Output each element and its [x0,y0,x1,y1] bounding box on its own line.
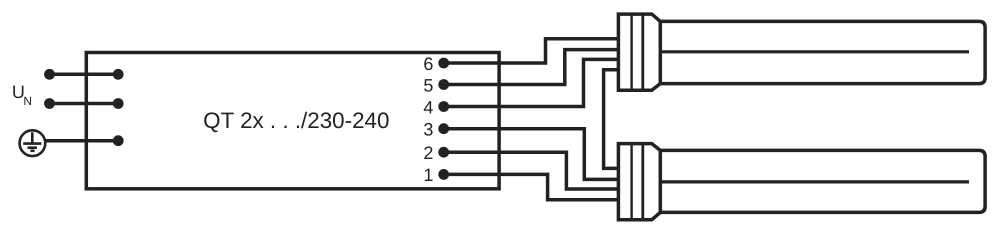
svg-text:N: N [23,94,32,108]
svg-text:1: 1 [423,165,433,185]
svg-text:6: 6 [423,54,433,74]
svg-text:QT 2x . . ./230-240: QT 2x . . ./230-240 [203,108,389,133]
svg-text:5: 5 [423,75,433,95]
svg-text:4: 4 [423,97,433,117]
svg-text:2: 2 [423,143,433,163]
svg-text:3: 3 [423,120,433,140]
